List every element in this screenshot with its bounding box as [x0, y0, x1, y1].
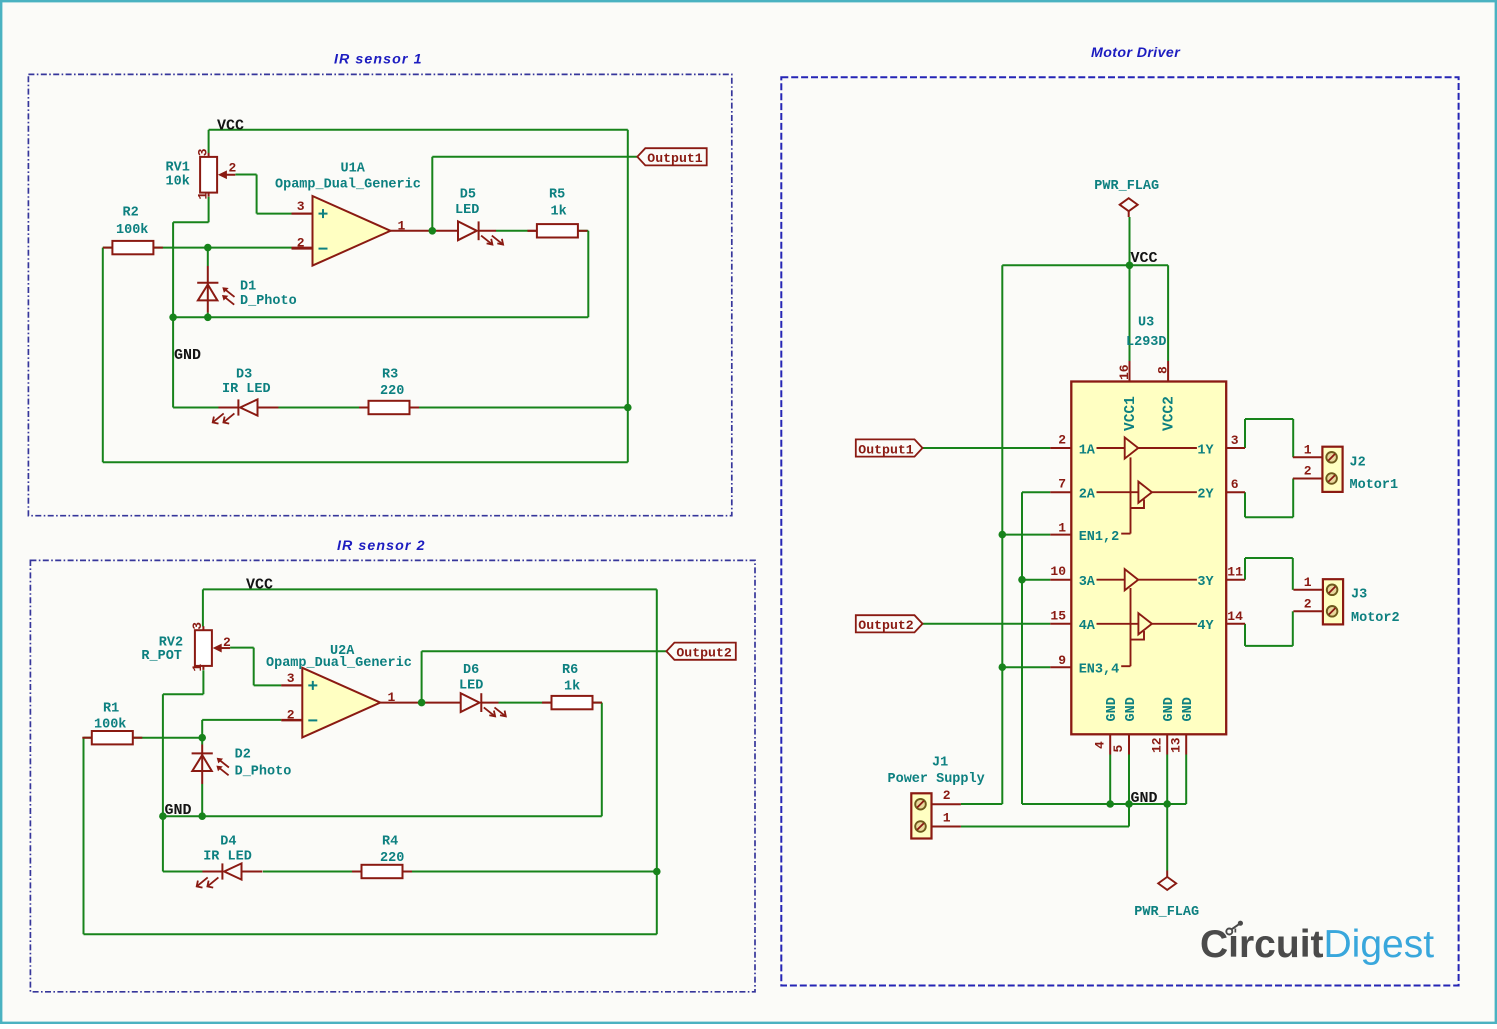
svg-text:7: 7	[1058, 477, 1066, 492]
svg-text:16: 16	[1117, 364, 1132, 380]
svg-text:1: 1	[190, 664, 205, 672]
svg-text:15: 15	[1050, 608, 1066, 623]
svg-text:3A: 3A	[1079, 575, 1096, 590]
svg-text:3: 3	[297, 199, 305, 214]
svg-text:R6: R6	[562, 663, 578, 678]
svg-text:2Y: 2Y	[1197, 488, 1214, 503]
svg-text:LED: LED	[459, 678, 483, 693]
svg-text:GND: GND	[1181, 697, 1196, 721]
svg-text:2: 2	[297, 235, 305, 250]
svg-text:GND: GND	[1131, 790, 1158, 807]
svg-text:3: 3	[196, 148, 211, 156]
svg-text:1: 1	[943, 811, 951, 826]
svg-text:1: 1	[398, 219, 406, 234]
svg-text:R_POT: R_POT	[141, 649, 182, 664]
svg-text:D5: D5	[460, 188, 476, 203]
svg-text:1k: 1k	[564, 680, 580, 695]
svg-text:L293D: L293D	[1126, 335, 1167, 350]
svg-text:J2: J2	[1350, 456, 1366, 471]
svg-text:4A: 4A	[1079, 619, 1096, 634]
svg-text:VCC2: VCC2	[1162, 396, 1178, 431]
svg-text:PWR_FLAG: PWR_FLAG	[1134, 905, 1199, 920]
svg-text:VCC1: VCC1	[1123, 396, 1139, 431]
svg-text:4: 4	[1093, 741, 1108, 749]
svg-text:220: 220	[380, 384, 404, 399]
svg-text:3: 3	[287, 671, 295, 686]
svg-text:IR LED: IR LED	[222, 382, 271, 397]
svg-text:GND: GND	[1162, 697, 1177, 721]
svg-text:100k: 100k	[116, 223, 148, 238]
svg-text:GND: GND	[1105, 697, 1120, 721]
svg-text:U3: U3	[1138, 316, 1154, 331]
svg-text:10: 10	[1050, 564, 1066, 579]
svg-text:3: 3	[1231, 433, 1239, 448]
svg-text:EN3,4: EN3,4	[1079, 663, 1120, 678]
svg-text:2: 2	[1304, 597, 1312, 612]
svg-text:D3: D3	[236, 368, 252, 383]
svg-text:D_Photo: D_Photo	[240, 294, 297, 309]
svg-text:9: 9	[1058, 653, 1066, 668]
svg-text:1: 1	[1304, 443, 1312, 458]
svg-text:EN1,2: EN1,2	[1079, 530, 1120, 545]
svg-text:D1: D1	[240, 280, 256, 295]
svg-text:Output1: Output1	[858, 442, 913, 457]
svg-text:IR sensor 1: IR sensor 1	[334, 52, 423, 68]
svg-text:R3: R3	[382, 368, 398, 383]
svg-text:1Y: 1Y	[1197, 443, 1214, 458]
svg-text:U1A: U1A	[341, 162, 366, 177]
svg-text:1: 1	[388, 690, 396, 705]
svg-text:D_Photo: D_Photo	[235, 765, 292, 780]
svg-text:2: 2	[223, 635, 231, 650]
svg-text:3: 3	[190, 622, 205, 630]
svg-text:12: 12	[1150, 737, 1165, 753]
svg-text:VCC: VCC	[246, 577, 273, 594]
svg-text:Motor Driver: Motor Driver	[1091, 45, 1181, 61]
svg-text:J3: J3	[1351, 588, 1367, 603]
svg-text:1: 1	[1058, 520, 1066, 535]
svg-text:RV1: RV1	[166, 161, 190, 176]
svg-text:11: 11	[1227, 565, 1243, 580]
svg-text:GND: GND	[1124, 697, 1139, 721]
svg-text:2A: 2A	[1079, 488, 1096, 503]
svg-text:GND: GND	[165, 802, 192, 819]
svg-text:10k: 10k	[166, 175, 190, 190]
svg-text:2: 2	[1058, 433, 1066, 448]
svg-text:100k: 100k	[94, 718, 126, 733]
svg-text:VCC: VCC	[1131, 250, 1158, 267]
svg-text:IR LED: IR LED	[203, 850, 252, 865]
svg-text:GND: GND	[174, 347, 201, 364]
svg-text:13: 13	[1169, 737, 1184, 753]
svg-text:Opamp_Dual_Generic: Opamp_Dual_Generic	[266, 656, 412, 671]
svg-text:D6: D6	[463, 663, 479, 678]
svg-text:Output2: Output2	[676, 646, 731, 661]
svg-text:3Y: 3Y	[1197, 575, 1214, 590]
svg-text:8: 8	[1156, 366, 1171, 374]
svg-text:1k: 1k	[551, 205, 567, 220]
svg-text:4Y: 4Y	[1197, 619, 1214, 634]
svg-text:Opamp_Dual_Generic: Opamp_Dual_Generic	[275, 177, 421, 192]
svg-text:D4: D4	[220, 835, 236, 850]
svg-text:1: 1	[1304, 575, 1312, 590]
svg-text:2: 2	[287, 708, 295, 723]
svg-text:1: 1	[196, 192, 211, 200]
svg-text:Power Supply: Power Supply	[888, 772, 985, 787]
svg-text:PWR_FLAG: PWR_FLAG	[1094, 179, 1159, 194]
svg-text:R4: R4	[382, 835, 398, 850]
svg-text:Output2: Output2	[858, 618, 913, 633]
svg-text:Motor1: Motor1	[1350, 478, 1399, 493]
svg-text:Motor2: Motor2	[1351, 611, 1400, 626]
svg-text:R5: R5	[549, 188, 565, 203]
svg-text:6: 6	[1231, 477, 1239, 492]
svg-text:220: 220	[380, 851, 404, 866]
svg-text:2: 2	[943, 788, 951, 803]
svg-text:1A: 1A	[1079, 443, 1096, 458]
svg-text:Output1: Output1	[647, 151, 702, 166]
svg-text:5: 5	[1111, 745, 1126, 753]
svg-text:D2: D2	[235, 748, 251, 763]
svg-text:CircuitDigest: CircuitDigest	[1200, 923, 1434, 966]
svg-text:IR sensor 2: IR sensor 2	[337, 538, 426, 554]
svg-text:J1: J1	[932, 756, 948, 771]
svg-text:VCC: VCC	[217, 118, 244, 135]
svg-text:R2: R2	[123, 206, 139, 221]
svg-text:14: 14	[1227, 609, 1243, 624]
svg-text:2: 2	[1304, 464, 1312, 479]
svg-text:LED: LED	[455, 203, 479, 218]
svg-text:R1: R1	[103, 702, 119, 717]
svg-text:2: 2	[229, 161, 237, 176]
